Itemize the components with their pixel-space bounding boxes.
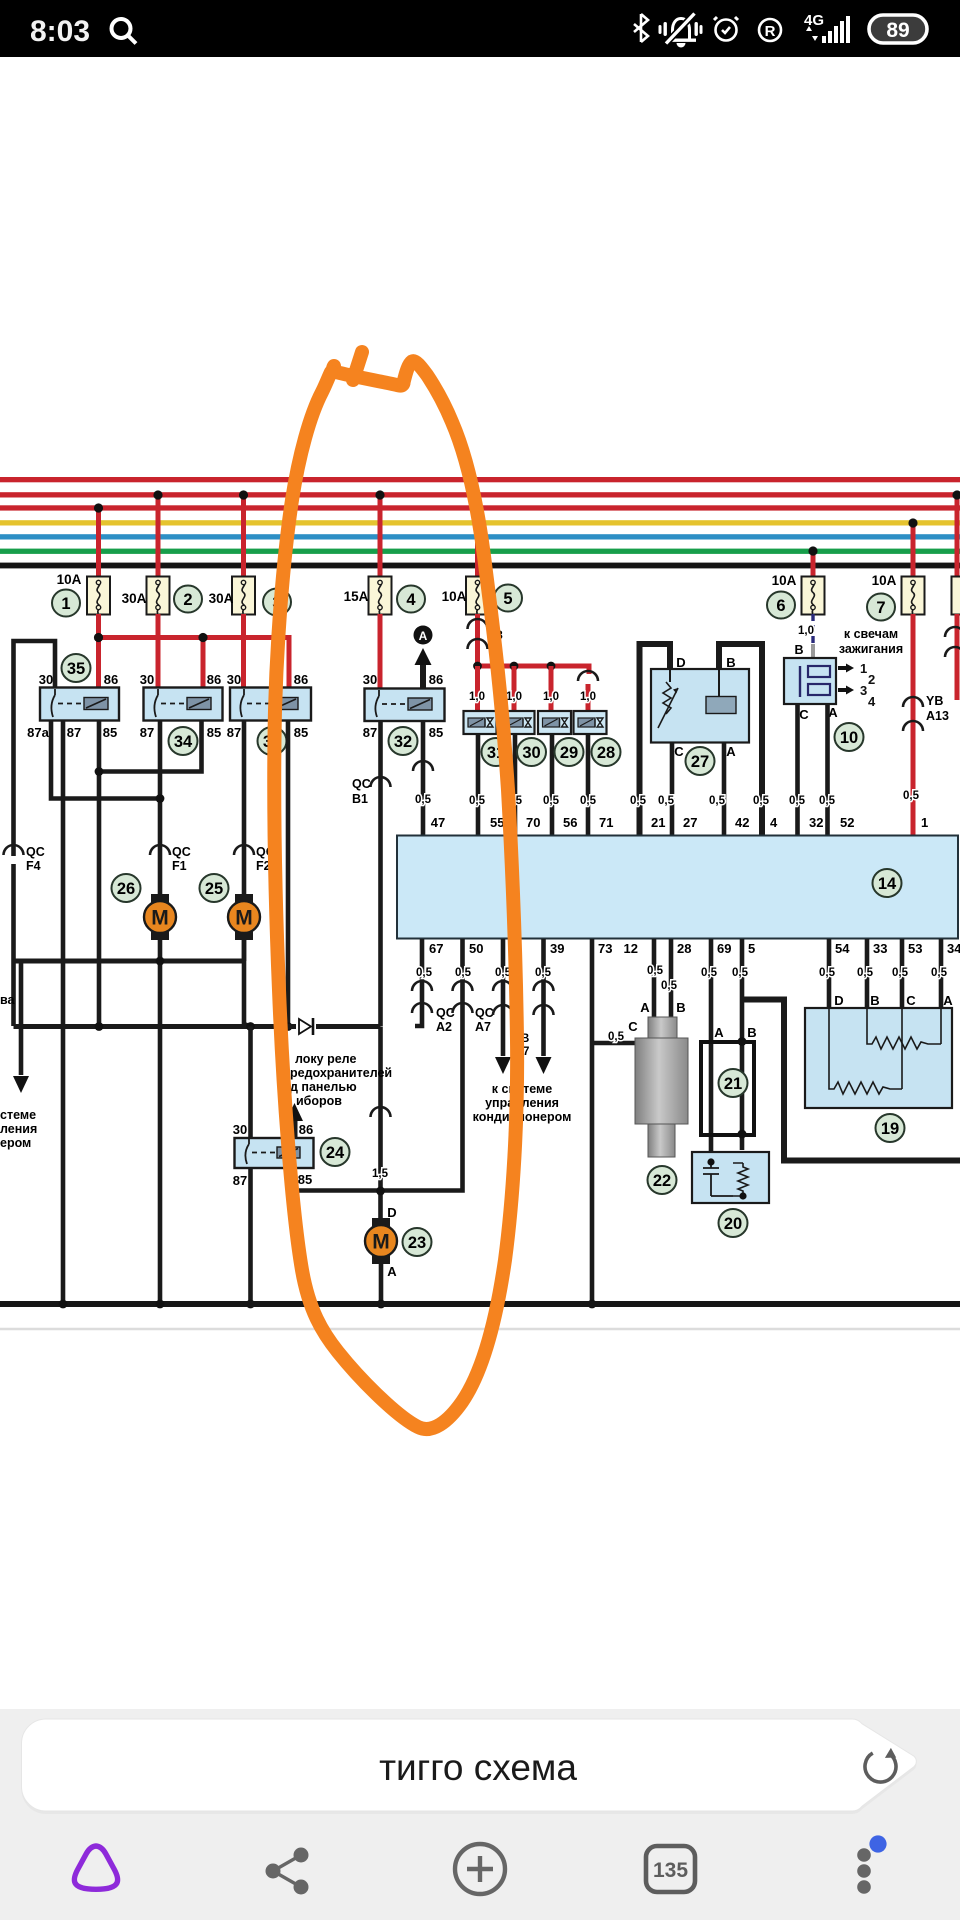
- svg-text:0,5: 0,5: [931, 967, 948, 979]
- svg-text:5: 5: [503, 590, 512, 608]
- svg-text:B: B: [794, 643, 803, 657]
- share icon: [266, 1848, 309, 1895]
- relay 34: [144, 688, 223, 721]
- svg-text:30: 30: [522, 744, 540, 762]
- label к блоку реле: [290, 1052, 392, 1108]
- svg-text:A: A: [714, 1025, 724, 1040]
- fuse F2: [147, 577, 170, 615]
- svg-text:32: 32: [809, 815, 823, 830]
- circle 3: [263, 589, 291, 616]
- bracket wire ECU pin4 to node B: [719, 644, 762, 836]
- svg-text:73: 73: [598, 941, 612, 956]
- bus line green: [0, 549, 960, 554]
- svg-text:0,5: 0,5: [608, 1031, 625, 1043]
- svg-text:0,5: 0,5: [535, 967, 552, 979]
- svg-text:C: C: [628, 1019, 638, 1034]
- svg-text:52: 52: [840, 815, 854, 830]
- circle 6: [767, 592, 795, 619]
- wire motor23 to bus3: [377, 1262, 386, 1308]
- svg-text:0,5: 0,5: [701, 967, 718, 979]
- battery 89: [869, 15, 927, 43]
- svg-text:30A: 30A: [209, 591, 234, 606]
- svg-text:стеме: стеме: [0, 1108, 36, 1122]
- label B 7 connector: [521, 1033, 529, 1058]
- ECU 14 box: [397, 836, 958, 939]
- wire fuse F2 drop: [153, 490, 162, 578]
- svg-text:зажигания: зажигания: [839, 642, 903, 656]
- circle 1: [52, 590, 80, 617]
- svg-text:20: 20: [724, 1215, 742, 1233]
- wire ECU aircon 1 with arrow: [493, 939, 513, 1074]
- bluetooth icon: [634, 14, 648, 42]
- fuel pump 22 body: [635, 1017, 688, 1157]
- wire fuse F7 drop: [908, 518, 917, 578]
- connector QC B1: [352, 777, 391, 806]
- svg-text:39: 39: [550, 941, 564, 956]
- heater 20 box: [692, 1152, 769, 1203]
- svg-text:135: 135: [653, 1859, 688, 1882]
- svg-text:33: 33: [873, 941, 887, 956]
- tabs 135: [646, 1846, 695, 1892]
- svg-text:1,0: 1,0: [580, 691, 596, 703]
- motor 23: [365, 1218, 397, 1264]
- plus circle: [455, 1844, 505, 1894]
- 4G + signal bars: [804, 12, 850, 43]
- svg-text:30: 30: [227, 672, 241, 687]
- svg-text:0,5: 0,5: [789, 795, 806, 807]
- wire ECU pin69 to lambda A: [709, 939, 714, 1162]
- svg-text:D: D: [387, 1205, 396, 1220]
- bus line red 2: [0, 492, 960, 497]
- svg-text:85: 85: [294, 725, 308, 740]
- label к системе ления ером edge: [0, 1108, 37, 1150]
- fuse F6: [802, 577, 825, 615]
- wire fuse F6 drop: [808, 546, 817, 578]
- svg-text:A: A: [828, 705, 838, 720]
- menu dots: [857, 1835, 886, 1893]
- ground bus 3: [0, 1300, 960, 1309]
- label к свечам зажигания: [839, 627, 903, 656]
- wire relay24 87 to bus3: [246, 1168, 255, 1308]
- svg-text:4: 4: [868, 694, 876, 709]
- svg-text:0,5: 0,5: [543, 795, 560, 807]
- search bar white bubble with pointed right tip: [22, 1722, 917, 1814]
- svg-text:86: 86: [207, 672, 221, 687]
- svg-text:д панелью: д панелью: [290, 1080, 357, 1094]
- svg-text:тигго схема: тигго схема: [379, 1747, 577, 1788]
- svg-text:QC: QC: [475, 1006, 494, 1020]
- svg-text:к свечам: к свечам: [844, 627, 898, 641]
- svg-text:87: 87: [67, 725, 81, 740]
- svg-text:1,0: 1,0: [798, 625, 814, 637]
- throttle unit 27 box: [651, 669, 749, 743]
- wire ECU pin33 to unit19 B: [865, 939, 870, 1009]
- svg-text:B: B: [726, 655, 735, 670]
- svg-text:87: 87: [140, 725, 154, 740]
- bracket wire ECU pin21 to node D: [640, 644, 671, 836]
- svg-text:C: C: [674, 744, 684, 759]
- wire coil A to ECU pin52: [825, 704, 830, 836]
- svg-text:24: 24: [326, 1144, 345, 1162]
- circle 23: [403, 1228, 432, 1256]
- svg-text:6: 6: [776, 597, 785, 615]
- motor 25: [228, 894, 260, 940]
- svg-text:A: A: [726, 744, 736, 759]
- svg-text:1: 1: [860, 661, 867, 676]
- svg-text:0,5: 0,5: [416, 967, 433, 979]
- wire relay24 feed: [248, 1027, 253, 1140]
- svg-text:85: 85: [103, 725, 117, 740]
- relay 33: [230, 688, 311, 721]
- wire fuse F5 drop: [473, 519, 481, 578]
- svg-text:ва: ва: [0, 993, 16, 1007]
- svg-text:10A: 10A: [57, 572, 82, 587]
- wire relay35 87a: [51, 720, 160, 799]
- wire relay35 87 down to buses: [61, 720, 66, 1304]
- svg-text:26: 26: [117, 880, 135, 898]
- svg-text:34: 34: [947, 941, 960, 956]
- circle 27: [686, 747, 715, 775]
- svg-text:10A: 10A: [872, 573, 897, 588]
- svg-text:42: 42: [735, 815, 749, 830]
- circle 25: [200, 874, 229, 902]
- R roaming icon: [759, 19, 781, 41]
- fuse F5: [466, 577, 489, 615]
- circle 35: [62, 654, 91, 682]
- svg-text:22: 22: [653, 1172, 671, 1190]
- wire relay32-87 lower to motor23: [371, 1027, 391, 1223]
- circle 33: [258, 727, 287, 755]
- svg-text:A: A: [943, 993, 953, 1008]
- refresh icon: [865, 1748, 896, 1782]
- wire ECU pin12 to fuel A: [652, 939, 657, 1018]
- wire motor25 to bus1: [242, 940, 247, 961]
- fuse F7: [902, 577, 925, 615]
- svg-text:86: 86: [104, 672, 118, 687]
- idle unit 19 box: [805, 1008, 952, 1108]
- circle 5: [494, 585, 522, 612]
- svg-text:21: 21: [724, 1075, 742, 1093]
- svg-text:56: 56: [563, 815, 577, 830]
- wire fuse F8 lower red: [955, 614, 960, 700]
- svg-text:D: D: [834, 993, 843, 1008]
- wire throttle C to ECU pin27: [670, 742, 675, 836]
- svg-text:0,5: 0,5: [647, 965, 664, 977]
- svg-text:27: 27: [691, 753, 709, 771]
- arrow up to A: [415, 648, 432, 688]
- svg-text:A13: A13: [926, 709, 949, 723]
- circle 29: [555, 738, 584, 766]
- svg-text:29: 29: [560, 744, 578, 762]
- svg-text:0,5: 0,5: [857, 967, 874, 979]
- wire relay34 87 to motor26 and bus: [156, 720, 165, 1304]
- svg-text:A: A: [419, 629, 428, 643]
- svg-text:0,5: 0,5: [469, 795, 486, 807]
- lambda sensor 21 box: [701, 1042, 754, 1135]
- svg-text:YB: YB: [926, 694, 943, 708]
- svg-text:0,5: 0,5: [415, 794, 432, 806]
- svg-text:67: 67: [429, 941, 443, 956]
- svg-text:50: 50: [469, 941, 483, 956]
- fuse F1: [87, 577, 110, 615]
- svg-text:70: 70: [526, 815, 540, 830]
- wire ECU pin39 aircon 2 with arrow: [534, 939, 554, 1074]
- wire ECU pin53 to unit19 C: [900, 939, 905, 1009]
- ignition coil 10 box: [784, 658, 836, 704]
- svg-text:87: 87: [227, 725, 241, 740]
- circle 19: [876, 1114, 905, 1142]
- status bar: [0, 0, 960, 57]
- circle 24: [321, 1138, 350, 1166]
- svg-text:69: 69: [717, 941, 731, 956]
- circle 22: [648, 1166, 677, 1194]
- svg-text:F1: F1: [172, 859, 187, 873]
- svg-text:A7: A7: [475, 1020, 491, 1034]
- wire ECU pin5 with right branch: [738, 939, 960, 1161]
- svg-text:30A: 30A: [122, 591, 147, 606]
- bus line black: [0, 563, 960, 569]
- wire inj28 to ECU pin 71: [586, 734, 591, 836]
- svg-text:A2: A2: [436, 1020, 452, 1034]
- svg-text:C: C: [799, 707, 809, 722]
- wire inj30 to ECU pin 70: [513, 734, 518, 836]
- bus line red 1: [0, 477, 960, 482]
- circle 28: [592, 738, 621, 766]
- node A circle: [414, 626, 433, 645]
- svg-text:B: B: [870, 993, 879, 1008]
- svg-text:87: 87: [233, 1173, 247, 1188]
- wire relay35 85: [95, 720, 202, 1026]
- circle 31: [482, 738, 511, 766]
- faint scan line: [0, 1328, 960, 1331]
- svg-text:7: 7: [876, 599, 885, 617]
- red rail to injectors: [473, 662, 598, 712]
- svg-text:QC: QC: [26, 845, 45, 859]
- svg-text:1: 1: [61, 595, 70, 613]
- svg-text:2: 2: [183, 591, 192, 609]
- wire ECU pin54 to unit19 D: [827, 939, 832, 1009]
- relay 32: [365, 689, 445, 722]
- svg-text:ления: ления: [0, 1122, 37, 1136]
- svg-text:0,5: 0,5: [580, 795, 597, 807]
- svg-text:0,5: 0,5: [819, 967, 836, 979]
- circle 2: [174, 586, 202, 613]
- arrow up from relay24 86: [286, 1103, 303, 1138]
- blue wire fuse F6 to coil: [811, 614, 814, 659]
- svg-text:86: 86: [294, 672, 308, 687]
- svg-text:0,5: 0,5: [819, 795, 836, 807]
- wire inj31 to ECU pin 55: [476, 734, 481, 836]
- svg-text:19: 19: [881, 1120, 899, 1138]
- wire relay32 87 down: [378, 721, 383, 1026]
- svg-text:21: 21: [651, 815, 665, 830]
- svg-text:30: 30: [39, 672, 53, 687]
- svg-text:0,5: 0,5: [903, 790, 920, 802]
- orange annotation loop: [274, 352, 517, 1429]
- wire ECU pin28 to fuel B: [669, 939, 674, 1018]
- svg-text:редохранителей: редохранителей: [290, 1066, 392, 1080]
- svg-text:QC: QC: [352, 777, 371, 791]
- svg-text:35: 35: [67, 660, 85, 678]
- connector QC F2: [234, 845, 275, 873]
- injector 28: [574, 711, 607, 734]
- circle 4: [397, 586, 425, 613]
- circle 34: [169, 727, 198, 755]
- svg-text:2: 2: [868, 672, 875, 687]
- circle 32: [389, 727, 418, 755]
- svg-text:87: 87: [363, 725, 377, 740]
- svg-text:QC: QC: [172, 845, 191, 859]
- wire relay32 85 to ECU pin 47: [413, 721, 433, 836]
- svg-text:1,0: 1,0: [506, 691, 522, 703]
- svg-text:0,5: 0,5: [732, 967, 749, 979]
- svg-text:0,5: 0,5: [658, 795, 675, 807]
- svg-text:1: 1: [921, 815, 928, 830]
- svg-text:25: 25: [205, 880, 223, 898]
- label QC A7: [475, 1006, 494, 1034]
- fuse F4: [369, 577, 392, 615]
- bell muted icon: [659, 14, 703, 48]
- wire fuse F7 to ECU pin1: [903, 614, 923, 836]
- svg-text:54: 54: [835, 941, 850, 956]
- search icon: [112, 19, 137, 44]
- wire ECU pin73 down to bus3: [588, 939, 650, 1308]
- svg-text:1,5: 1,5: [372, 1168, 389, 1180]
- svg-text:1,0: 1,0: [469, 691, 485, 703]
- svg-text:30: 30: [140, 672, 154, 687]
- wire arrow down left: [13, 963, 29, 1093]
- svg-text:0,5: 0,5: [661, 980, 678, 992]
- svg-text:10A: 10A: [442, 589, 467, 604]
- wire fuse F3 drop: [239, 490, 248, 578]
- connector QC on F8 wire: [945, 627, 960, 657]
- label QC A2: [436, 1006, 455, 1034]
- circle 26: [112, 874, 141, 902]
- yandex browser logo: [74, 1846, 117, 1889]
- svg-text:4: 4: [406, 591, 416, 609]
- svg-text:0,5: 0,5: [455, 967, 472, 979]
- injector 29: [538, 711, 571, 734]
- svg-text:53: 53: [908, 941, 922, 956]
- svg-text:23: 23: [408, 1234, 426, 1252]
- svg-text:30: 30: [363, 672, 377, 687]
- motor 26: [144, 894, 176, 940]
- alarm clock icon: [714, 17, 738, 41]
- svg-text:28: 28: [677, 941, 691, 956]
- injector 31: [464, 711, 497, 734]
- wire ECU pin34 to unit19 A: [939, 939, 944, 1009]
- svg-text:локу реле: локу реле: [295, 1052, 356, 1066]
- bottom search + nav: [0, 1709, 960, 1920]
- ground bus 2 with diode: [14, 1018, 381, 1035]
- relay 35: [40, 688, 119, 721]
- wire relay33 87 to motor25: [244, 720, 251, 1027]
- svg-text:85: 85: [298, 1172, 312, 1187]
- svg-text:30: 30: [233, 1122, 247, 1137]
- spark plug arrows: [838, 661, 876, 709]
- wire inj29 to ECU pin 56: [550, 734, 555, 836]
- svg-text:B: B: [676, 1000, 685, 1015]
- circle 21: [719, 1069, 748, 1097]
- svg-text:5: 5: [748, 941, 755, 956]
- bus line red 3: [0, 505, 960, 510]
- svg-text:C: C: [906, 993, 916, 1008]
- connector QC F1: [150, 845, 191, 873]
- connector arcs under fuse F5: [468, 614, 488, 666]
- wire relay35 pin30 top jog: [14, 641, 56, 856]
- wire fuse F4 drop: [375, 490, 384, 578]
- svg-text:86: 86: [429, 672, 443, 687]
- fuse F8: [952, 577, 960, 615]
- svg-text:71: 71: [599, 815, 613, 830]
- svg-text:87a: 87a: [27, 725, 49, 740]
- wire QC F4 down to bus: [11, 864, 16, 1026]
- injector 30: [502, 711, 535, 734]
- wire throttle A to ECU pin42: [722, 742, 727, 836]
- svg-text:иборов: иборов: [296, 1094, 342, 1108]
- wire fuse F8 drop (right edge, partial): [952, 490, 960, 578]
- svg-text:86: 86: [299, 1122, 313, 1137]
- svg-text:D: D: [676, 655, 685, 670]
- svg-text:32: 32: [394, 733, 412, 751]
- svg-text:10: 10: [840, 729, 858, 747]
- wire fuse F4 to relay32: [378, 614, 383, 689]
- wire fuse F1 drop: [94, 503, 103, 578]
- connector QC F4: [4, 845, 45, 873]
- svg-text:85: 85: [207, 725, 221, 740]
- red rail node to relays 35/34/33: [94, 614, 289, 689]
- circle 30: [517, 738, 546, 766]
- label к системе управления кондиционером: [473, 1082, 572, 1124]
- wire ECU pin67 with QC A2: [412, 939, 432, 1026]
- wire coil C to ECU pin32: [795, 704, 800, 836]
- svg-text:ером: ером: [0, 1136, 31, 1150]
- svg-text:12: 12: [624, 941, 638, 956]
- svg-text:B: B: [747, 1025, 756, 1040]
- circle 20: [719, 1209, 748, 1237]
- svg-text:14: 14: [878, 875, 897, 893]
- svg-text:85: 85: [429, 725, 443, 740]
- wire relay33 85 down: [284, 720, 293, 1031]
- circle 7: [867, 594, 895, 621]
- svg-text:4: 4: [770, 815, 778, 830]
- svg-text:55: 55: [490, 815, 504, 830]
- svg-text:B1: B1: [352, 792, 368, 806]
- svg-text:A: A: [640, 1000, 650, 1015]
- svg-text:10A: 10A: [772, 573, 797, 588]
- svg-text:28: 28: [597, 744, 615, 762]
- svg-text:1,0: 1,0: [543, 691, 559, 703]
- svg-text:0,5: 0,5: [630, 795, 647, 807]
- svg-text:15A: 15A: [344, 589, 369, 604]
- svg-text:0,5: 0,5: [709, 795, 726, 807]
- fuse F3: [232, 577, 255, 615]
- bus line yellow: [0, 520, 960, 525]
- svg-text:F4: F4: [26, 859, 41, 873]
- svg-text:34: 34: [174, 733, 193, 751]
- wire ECU pin50 to corner relay24: [295, 939, 473, 1191]
- svg-text:47: 47: [431, 815, 445, 830]
- svg-text:A: A: [387, 1264, 397, 1279]
- svg-text:3: 3: [860, 683, 867, 698]
- circle 10: [835, 723, 864, 751]
- circle 14: [873, 869, 902, 897]
- svg-text:27: 27: [683, 815, 697, 830]
- ground bus 1: [14, 957, 245, 966]
- bus line blue: [0, 534, 960, 539]
- svg-text:0,5: 0,5: [753, 795, 770, 807]
- relay 24: [235, 1138, 314, 1168]
